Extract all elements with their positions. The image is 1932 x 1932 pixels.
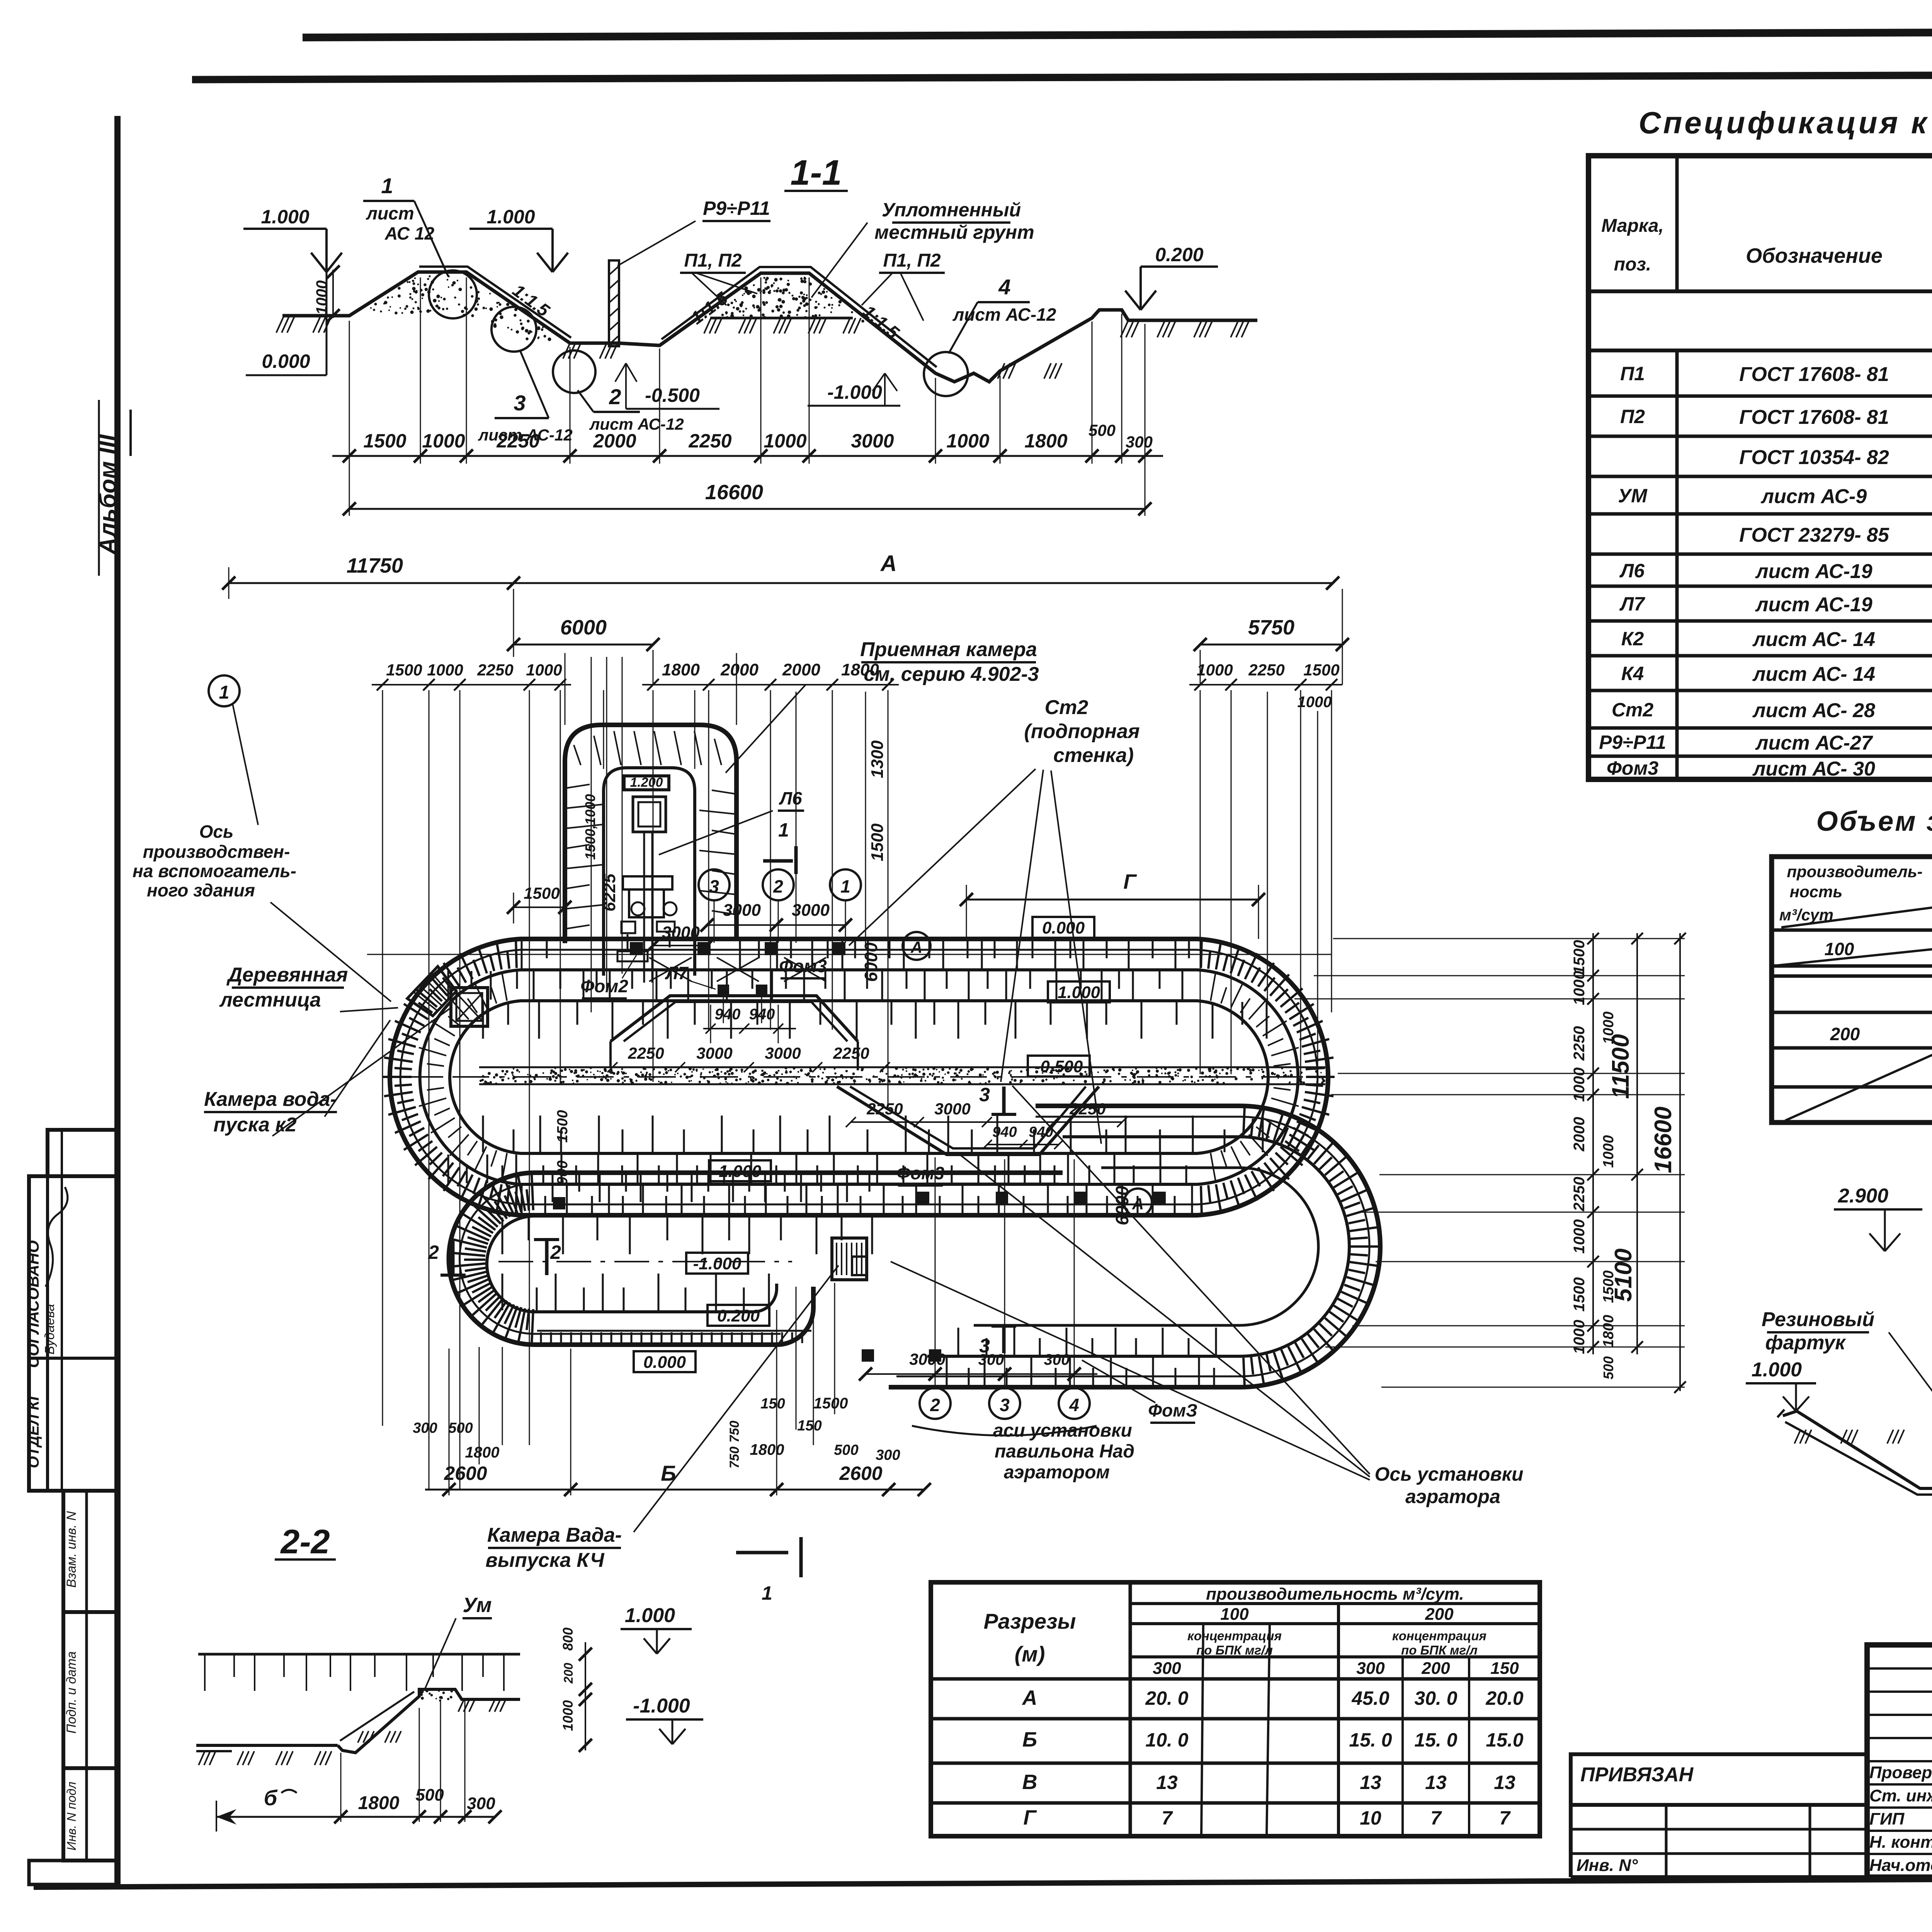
svg-text:Приемная камера: Приемная камера	[860, 638, 1037, 661]
svg-text:1: 1	[778, 819, 789, 841]
svg-text:13: 13	[1494, 1772, 1515, 1793]
svg-text:Деревянная: Деревянная	[226, 964, 348, 986]
plan: bottom loop lane ticks	[502, 1174, 872, 1310]
svg-text:300: 300	[876, 1447, 900, 1463]
svg-text:1500: 1500	[1571, 1277, 1588, 1312]
plan axis circles 2 3 4 with dims	[859, 1157, 1097, 1435]
section 1-1 mound fill dots	[423, 283, 427, 286]
svg-text:Ст2: Ст2	[1045, 696, 1088, 719]
plan: bottom loop outer wall	[449, 1173, 1063, 1345]
svg-text:4: 4	[998, 275, 1010, 299]
label Деревянная лестница	[219, 964, 398, 1012]
volumes table text	[1779, 856, 1932, 1083]
svg-text:2600: 2600	[839, 1463, 882, 1484]
svg-text:2: 2	[609, 384, 621, 409]
section 2-2 profile	[196, 1689, 520, 1765]
svg-text:15.0: 15.0	[1486, 1729, 1524, 1751]
svg-text:ГОСТ 23279- 85: ГОСТ 23279- 85	[1739, 524, 1889, 546]
svg-text:П1: П1	[1620, 363, 1645, 384]
svg-text:Фом2: Фом2	[580, 976, 628, 996]
svg-text:13: 13	[1156, 1772, 1178, 1793]
plan dimension Г	[960, 870, 1265, 939]
svg-text:стенка): стенка)	[1053, 744, 1134, 767]
svg-text:местный грунт: местный грунт	[874, 221, 1034, 243]
plan: wooden stairs hatched patch	[407, 966, 456, 1016]
svg-text:см. серию 4.902-3: см. серию 4.902-3	[864, 663, 1039, 685]
svg-text:1000: 1000	[1600, 1135, 1617, 1168]
svg-text:3: 3	[979, 1335, 990, 1357]
svg-text:300: 300	[413, 1420, 437, 1436]
svg-text:1500: 1500	[1303, 661, 1339, 679]
svg-text:ГИП: ГИП	[1869, 1810, 1905, 1828]
plan black foundation squares lower row	[553, 1192, 1166, 1362]
svg-text:3: 3	[709, 876, 719, 896]
plan top small dimension row	[372, 660, 1342, 711]
svg-text:лист АС-19: лист АС-19	[1755, 560, 1872, 583]
svg-text:15. 0: 15. 0	[1414, 1729, 1457, 1751]
svg-text:Подп. и дата: Подп. и дата	[64, 1651, 79, 1734]
svg-text:3000: 3000	[723, 901, 761, 920]
svg-text:1: 1	[840, 876, 850, 896]
svg-text:1800: 1800	[358, 1793, 400, 1813]
svg-text:Будаева: Будаева	[43, 1304, 57, 1355]
svg-text:1300: 1300	[868, 740, 887, 778]
section 1-1 ground hatching	[276, 316, 284, 333]
plan: bottom loop axis dash-dot	[498, 1261, 792, 1262]
svg-text:900: 900	[554, 1160, 571, 1185]
svg-text:750: 750	[727, 1447, 742, 1469]
label оси установки павильона над аэратором	[993, 1420, 1134, 1483]
plan black foundation squares top row with bracing	[630, 942, 845, 1023]
plan: top lobe ring hatching	[565, 731, 736, 929]
svg-text:м³/сут: м³/сут	[1779, 906, 1833, 924]
svg-text:1: 1	[762, 1582, 772, 1604]
svg-text:3000: 3000	[851, 430, 894, 452]
svg-text:16600: 16600	[1650, 1107, 1677, 1173]
svg-text:ПРИВЯЗАН: ПРИВЯЗАН	[1580, 1764, 1694, 1786]
svg-text:(подпорная: (подпорная	[1024, 720, 1139, 743]
svg-text:0.000: 0.000	[262, 350, 310, 372]
section 3-3 water basin slope and apron	[1777, 1410, 1932, 1495]
svg-text:Ст. инж.: Ст. инж.	[1869, 1786, 1932, 1805]
svg-text:Обозначение: Обозначение	[1746, 244, 1883, 267]
svg-text:ного здания: ного здания	[147, 880, 255, 900]
svg-text:Спецификация к схеме распол: Спецификация к схеме расположения ЦОКа.	[1639, 105, 1932, 140]
svg-text:1500: 1500	[386, 661, 422, 679]
svg-text:1000: 1000	[764, 430, 806, 452]
plan right dimension 11500 and 5100	[1607, 933, 1643, 1354]
svg-text:2000: 2000	[720, 660, 759, 679]
svg-text:1500: 1500	[524, 884, 560, 902]
svg-text:1.000: 1.000	[261, 206, 309, 228]
svg-text:1.000: 1.000	[1058, 983, 1100, 1002]
title block frame	[1867, 1645, 1932, 1877]
plan Фом labels	[580, 788, 1197, 1423]
svg-text:СОГЛАСОВАНО: СОГЛАСОВАНО	[24, 1240, 42, 1368]
svg-text:К4: К4	[1621, 663, 1644, 684]
svg-text:3000: 3000	[934, 1100, 970, 1118]
svg-text:2250: 2250	[1069, 1100, 1105, 1118]
svg-text:800: 800	[560, 1628, 576, 1651]
svg-text:300: 300	[1153, 1659, 1181, 1678]
svg-text:10: 10	[1360, 1807, 1381, 1829]
svg-text:лист АС- 14: лист АС- 14	[1752, 663, 1875, 685]
plan: lower right oval inner wall	[927, 1137, 1349, 1356]
svg-text:Камера вода-: Камера вода-	[204, 1088, 337, 1111]
sheet inner frame top line	[192, 73, 1932, 80]
svg-text:выпуска КЧ: выпуска КЧ	[485, 1549, 604, 1571]
section 1-1 liner plate lines	[419, 267, 571, 338]
plan axis circles 3 2 1 row	[699, 869, 861, 943]
svg-text:Фом3: Фом3	[896, 1163, 944, 1183]
svg-text:фартук: фартук	[1765, 1332, 1847, 1354]
svg-text:3000: 3000	[696, 1044, 732, 1062]
svg-text:производитель-: производитель-	[1787, 862, 1922, 881]
plan axis circle A upper	[903, 932, 930, 960]
svg-text:1.000: 1.000	[1752, 1359, 1802, 1381]
svg-text:Ст2: Ст2	[1612, 699, 1654, 721]
svg-text:3000: 3000	[662, 923, 700, 942]
svg-text:Камера Вада-: Камера Вада-	[487, 1524, 622, 1546]
svg-text:3000: 3000	[765, 1044, 801, 1062]
svg-text:П2: П2	[1620, 406, 1645, 427]
svg-text:0.000: 0.000	[643, 1353, 686, 1372]
plan: upper trapezoid dividing wall	[611, 996, 858, 1067]
svg-text:300: 300	[1044, 1351, 1070, 1368]
detail circle 1 with label лист АС 12	[363, 173, 477, 318]
svg-text:2: 2	[773, 876, 783, 896]
svg-text:-1.000: -1.000	[827, 381, 882, 403]
svg-text:-0.500: -0.500	[1035, 1057, 1083, 1076]
plan dims 2250 3000 3000 2250 upper row	[607, 1044, 890, 1072]
svg-text:1000: 1000	[1571, 1320, 1588, 1354]
svg-text:2000: 2000	[782, 660, 820, 679]
sidebar box Инв. № подл.	[29, 1768, 118, 1884]
plan long leader from kamera K2 label to stairs	[325, 1020, 390, 1117]
svg-text:АС 12: АС 12	[384, 223, 435, 243]
svg-text:1000: 1000	[427, 661, 463, 679]
svg-text:ГОСТ 17608- 81: ГОСТ 17608- 81	[1739, 406, 1889, 429]
svg-text:2250: 2250	[688, 430, 731, 452]
svg-text:2.900: 2.900	[1838, 1185, 1888, 1207]
sheet outer top border line	[303, 30, 1932, 37]
svg-text:лист АС-9: лист АС-9	[1760, 485, 1867, 508]
plan axis circle 1 top left	[209, 675, 258, 825]
svg-text:7: 7	[1430, 1807, 1442, 1829]
svg-text:11750: 11750	[347, 554, 403, 577]
plan axis circle A lower	[1124, 1189, 1152, 1216]
plan: lobe interior equipment	[617, 775, 677, 983]
plan: lower trapezoid dividing wall	[837, 1087, 1099, 1155]
svg-text:5100: 5100	[1610, 1248, 1637, 1302]
plan: bottom loop companion line	[460, 1184, 1059, 1334]
vertical dim 1000	[332, 270, 334, 318]
plan right dimension chain	[1571, 933, 1617, 1379]
svg-text:Разрезы: Разрезы	[984, 1609, 1076, 1633]
plan: central axis dash-dot line	[390, 1076, 1329, 1078]
retaining wall Р9-Р11 in section 1-1	[609, 260, 619, 346]
svg-text:Резиновый: Резиновый	[1762, 1308, 1874, 1331]
svg-text:б: б	[264, 1786, 278, 1810]
plan: lower right oval companion line	[896, 1117, 1369, 1376]
svg-text:Взам. инв. N: Взам. инв. N	[64, 1511, 79, 1588]
elevation 0.000 left	[326, 229, 328, 375]
plan: top lobe outer wall	[565, 725, 736, 943]
plan bottom dims near loop	[413, 1283, 931, 1496]
svg-text:2: 2	[550, 1242, 561, 1263]
svg-text:1800: 1800	[1024, 430, 1067, 452]
specification table frame	[1588, 156, 1932, 779]
label Камера водовыпуска К2	[204, 1008, 451, 1136]
svg-text:Марка,: Марка,	[1601, 216, 1664, 236]
title block signature rows	[1869, 1763, 1932, 1875]
svg-text:Г: Г	[1023, 1806, 1037, 1829]
svg-text:1000: 1000	[1571, 1219, 1588, 1254]
svg-text:2250: 2250	[833, 1044, 869, 1062]
svg-text:500: 500	[834, 1442, 858, 1458]
plan: lower right oval island wall	[974, 1168, 1318, 1325]
plan right horizontal extension lines	[1294, 939, 1685, 1387]
svg-text:6225: 6225	[600, 874, 619, 912]
svg-text:1000: 1000	[1298, 694, 1332, 711]
svg-text:-1.000: -1.000	[633, 1695, 690, 1717]
plan inner dims 940 940 upper	[703, 1005, 796, 1043]
svg-text:пуска к2: пуска к2	[213, 1114, 296, 1136]
svg-text:150: 150	[1490, 1659, 1519, 1678]
svg-text:лист АС-12: лист АС-12	[952, 304, 1056, 325]
svg-text:Л6: Л6	[1619, 560, 1645, 582]
svg-text:аси установки: аси установки	[993, 1420, 1132, 1441]
plan: lower right oval outer wall	[889, 1106, 1380, 1387]
svg-text:П1, П2: П1, П2	[883, 250, 940, 271]
svg-text:6000: 6000	[560, 616, 607, 639]
svg-text:Г: Г	[1123, 870, 1137, 893]
svg-text:Р9÷Р11: Р9÷Р11	[1599, 731, 1666, 753]
plan top dimension A	[514, 551, 1339, 590]
svg-text:2250: 2250	[1248, 661, 1284, 679]
svg-text:45.0: 45.0	[1351, 1687, 1389, 1709]
svg-text:Фом3: Фом3	[1607, 757, 1659, 779]
svg-text:-1.000: -1.000	[693, 1254, 742, 1273]
svg-text:на вспомогатель-: на вспомогатель-	[133, 861, 296, 881]
svg-text:1500: 1500	[554, 1110, 571, 1143]
svg-text:940: 940	[715, 1006, 741, 1023]
svg-text:100: 100	[1825, 939, 1854, 959]
svg-text:аэратором: аэратором	[1004, 1462, 1110, 1483]
section 1-1 dimension extension lines	[349, 277, 1145, 464]
section cut mark 1 bottom	[736, 1537, 801, 1604]
svg-text:концентрация: концентрация	[1187, 1629, 1282, 1643]
svg-text:ность: ность	[1790, 883, 1843, 901]
label Приемная камера	[726, 638, 1039, 773]
svg-text:концентрация: концентрация	[1392, 1629, 1486, 1643]
svg-text:1000: 1000	[1197, 661, 1233, 679]
plan: bottom loop cap hatching	[532, 1309, 533, 1345]
svg-text:лист АС- 28: лист АС- 28	[1752, 699, 1875, 722]
plan: upper oval cap hatching left	[502, 1153, 507, 1181]
svg-text:аэратора: аэратора	[1405, 1486, 1500, 1507]
svg-text:Инв. N подл: Инв. N подл	[65, 1782, 78, 1850]
svg-text:1: 1	[219, 682, 230, 703]
svg-text:лист АС-27: лист АС-27	[1755, 732, 1873, 754]
svg-text:150: 150	[760, 1396, 785, 1412]
sections table text	[984, 1585, 1524, 1829]
svg-text:1.000: 1.000	[486, 206, 535, 228]
svg-text:2000: 2000	[1571, 1117, 1588, 1152]
svg-text:13: 13	[1360, 1772, 1381, 1793]
svg-text:2250: 2250	[477, 661, 513, 679]
svg-text:лист АС- 14: лист АС- 14	[1752, 628, 1875, 651]
svg-text:1500: 1500	[868, 823, 887, 861]
specification table rows	[1588, 352, 1932, 780]
svg-text:Л7: Л7	[1619, 593, 1645, 615]
elevation 1.000 mid	[537, 253, 553, 272]
svg-text:500: 500	[1600, 1356, 1616, 1379]
sections table (Разрезы) frame	[931, 1582, 1540, 1836]
svg-text:-0.500: -0.500	[645, 384, 700, 406]
svg-text:2250: 2250	[866, 1100, 903, 1118]
svg-text:200: 200	[561, 1663, 575, 1684]
svg-text:200: 200	[1425, 1605, 1454, 1624]
svg-text:Провер.: Провер.	[1869, 1763, 1932, 1782]
section cut mark 3	[979, 1084, 1016, 1357]
plan: bottom loop island wall	[487, 1216, 1005, 1312]
svg-text:Б: Б	[661, 1461, 676, 1485]
svg-text:20.0: 20.0	[1485, 1687, 1524, 1709]
svg-text:15. 0: 15. 0	[1349, 1729, 1392, 1751]
svg-text:1500: 1500	[1571, 940, 1588, 975]
svg-text:1000: 1000	[560, 1700, 576, 1731]
svg-text:16600: 16600	[705, 481, 763, 504]
elevation 1.000 left	[311, 253, 327, 272]
svg-text:ГОСТ 10354- 82: ГОСТ 10354- 82	[1739, 446, 1889, 469]
label Камера водовыпуска КЧ	[485, 1265, 838, 1571]
svg-text:1000: 1000	[313, 281, 330, 315]
section 2-2 upper ground line with ticks	[198, 1654, 520, 1691]
svg-text:2: 2	[930, 1395, 940, 1415]
plan: central stippled strip	[479, 1066, 1325, 1085]
svg-text:Ось: Ось	[199, 821, 234, 842]
svg-text:лист: лист	[366, 203, 414, 223]
svg-text:300: 300	[1356, 1659, 1385, 1678]
sidebar box Подп. и дата	[63, 1612, 118, 1768]
svg-text:В: В	[1022, 1770, 1037, 1794]
section 2-2 bottom dimension line	[216, 1699, 502, 1832]
svg-text:2-2: 2-2	[280, 1522, 330, 1561]
svg-text:1.000: 1.000	[625, 1604, 675, 1627]
svg-text:1000: 1000	[946, 430, 989, 452]
svg-text:А: А	[880, 551, 897, 576]
svg-text:2600: 2600	[444, 1463, 487, 1484]
plan right dimension 16600	[1650, 933, 1686, 1393]
svg-text:2000: 2000	[593, 430, 636, 452]
svg-text:(м): (м)	[1015, 1642, 1045, 1666]
svg-text:ГОСТ 17608- 81: ГОСТ 17608- 81	[1739, 363, 1889, 386]
label axis of auxiliary building	[133, 821, 391, 1002]
sidebar box СОГЛАСОВАНО	[24, 1130, 118, 1491]
svg-text:производительность м³/сут.: производительность м³/сут.	[1206, 1585, 1464, 1604]
svg-text:10. 0: 10. 0	[1145, 1729, 1188, 1751]
section 1-1 ground profile	[282, 272, 618, 343]
svg-text:Н. контр: Н. контр	[1869, 1833, 1932, 1852]
plan elevation boxed labels	[1032, 917, 1094, 938]
svg-text:300: 300	[467, 1794, 495, 1813]
detail circle 2 with label лист АС-12	[553, 350, 684, 433]
section cut mark 2 left	[428, 1240, 561, 1275]
svg-text:1500: 1500	[363, 430, 406, 452]
svg-text:3: 3	[979, 1084, 990, 1105]
svg-text:6000: 6000	[861, 942, 881, 982]
svg-text:производствен-: производствен-	[143, 842, 290, 862]
plan: upper oval island wall	[450, 1001, 1268, 1153]
svg-text:К2: К2	[1621, 628, 1644, 650]
svg-text:лист АС-19: лист АС-19	[1755, 594, 1872, 616]
svg-text:Нач.отд: Нач.отд	[1869, 1856, 1932, 1875]
volumes table frame	[1772, 857, 1932, 1122]
svg-text:лестница: лестница	[219, 989, 321, 1011]
svg-text:1000: 1000	[526, 661, 562, 679]
svg-text:Р9÷Р11: Р9÷Р11	[703, 197, 770, 219]
svg-text:1800: 1800	[750, 1441, 784, 1458]
plan dims lower row 2250 3000 2250 and 940 940	[846, 1100, 1127, 1149]
svg-text:Фом3: Фом3	[779, 956, 827, 976]
svg-text:Ось установки: Ось установки	[1375, 1463, 1524, 1485]
svg-text:7: 7	[1499, 1807, 1511, 1829]
plan: thin guide line across upper lane	[367, 954, 1331, 955]
svg-text:1-1: 1-1	[791, 153, 842, 192]
plan: upper oval inner wall	[420, 970, 1298, 1184]
detail circle 4 with label лист АС-12	[924, 275, 1056, 396]
svg-text:УМ: УМ	[1618, 485, 1648, 507]
plan top dimension 6000	[507, 616, 660, 651]
svg-text:1500,1000: 1500,1000	[582, 794, 598, 860]
plan: upper oval lane tick hatching	[448, 940, 1267, 1214]
svg-text:7: 7	[1162, 1807, 1173, 1829]
svg-text:Л6: Л6	[779, 788, 802, 808]
plan left dim 1500 at lobe	[507, 884, 571, 923]
svg-text:А: А	[1022, 1686, 1037, 1709]
svg-text:0.200: 0.200	[717, 1306, 760, 1325]
plan: upper oval cap hatching right	[1211, 973, 1216, 1001]
svg-text:940: 940	[992, 1124, 1017, 1140]
plan inner dims 3000 3000 row	[646, 901, 852, 952]
svg-text:А: А	[910, 938, 922, 956]
svg-text:3: 3	[1000, 1395, 1010, 1415]
sheet left inner frame line	[114, 116, 121, 1886]
plan: lower right cap hatching	[1243, 1107, 1245, 1135]
svg-text:150: 150	[797, 1418, 821, 1434]
svg-text:500: 500	[448, 1420, 473, 1436]
label Ось установки аэратора	[891, 1086, 1524, 1507]
svg-text:100: 100	[1220, 1605, 1249, 1624]
elevation 0.200 right	[1125, 291, 1141, 310]
section 1-1 total dimension 16600	[343, 464, 1151, 516]
svg-text:1800: 1800	[465, 1444, 500, 1461]
label Ст2 подпорная стенка	[849, 696, 1140, 1144]
svg-text:4: 4	[1069, 1395, 1079, 1415]
svg-text:А: А	[1132, 1195, 1144, 1213]
svg-text:Инв. N°: Инв. N°	[1577, 1856, 1638, 1875]
svg-text:5750: 5750	[1248, 616, 1294, 639]
svg-text:30. 0: 30. 0	[1414, 1687, 1457, 1709]
svg-text:300: 300	[1126, 433, 1153, 451]
section 1-1 mound2 base line	[710, 317, 853, 320]
plan: lower right lane ticks	[947, 1328, 1216, 1386]
svg-text:Л7: Л7	[665, 963, 689, 983]
plan: upper oval outer wall	[390, 939, 1328, 1215]
svg-text:по БПК мг/л: по БПК мг/л	[1401, 1643, 1478, 1657]
svg-text:1800: 1800	[1600, 1315, 1617, 1348]
